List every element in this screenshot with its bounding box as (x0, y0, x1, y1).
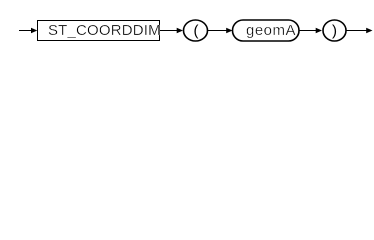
wire 3 (299, 28, 322, 33)
svg-text:geomA: geomA (246, 22, 296, 39)
wire 2 (208, 28, 233, 33)
wire start (19, 28, 37, 33)
terminal ) (323, 20, 346, 41)
box ST_COORDDIM (38, 21, 161, 41)
svg-text:): ) (332, 23, 337, 40)
wire 1 (160, 28, 183, 33)
svg-text:ST_COORDDIM: ST_COORDDIM (48, 22, 161, 39)
terminal ( (184, 20, 208, 41)
wire end (346, 28, 373, 33)
terminal geomA (233, 20, 300, 41)
svg-text:(: ( (194, 23, 199, 40)
